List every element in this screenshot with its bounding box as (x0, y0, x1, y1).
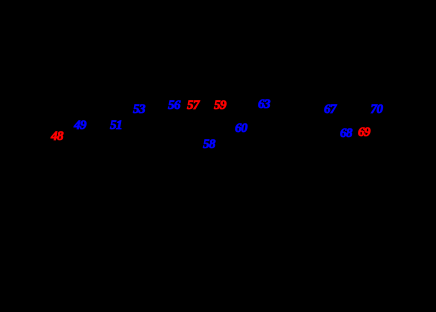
atom number 57 (187, 97, 199, 113)
atom number 70 (371, 101, 383, 117)
atom number 56 (168, 97, 180, 113)
atom number 53 (133, 101, 145, 117)
atom number 67 (324, 101, 336, 117)
atom number 69 (358, 124, 370, 140)
atom number 68 (340, 125, 352, 141)
atom number 48 (51, 128, 63, 144)
atom number 59 (214, 97, 226, 113)
atom number 51 (110, 117, 122, 133)
atom number 63 (258, 96, 270, 112)
atom number 49 (74, 117, 86, 133)
atom number 60 (235, 120, 247, 136)
atom number 58 (203, 136, 215, 152)
